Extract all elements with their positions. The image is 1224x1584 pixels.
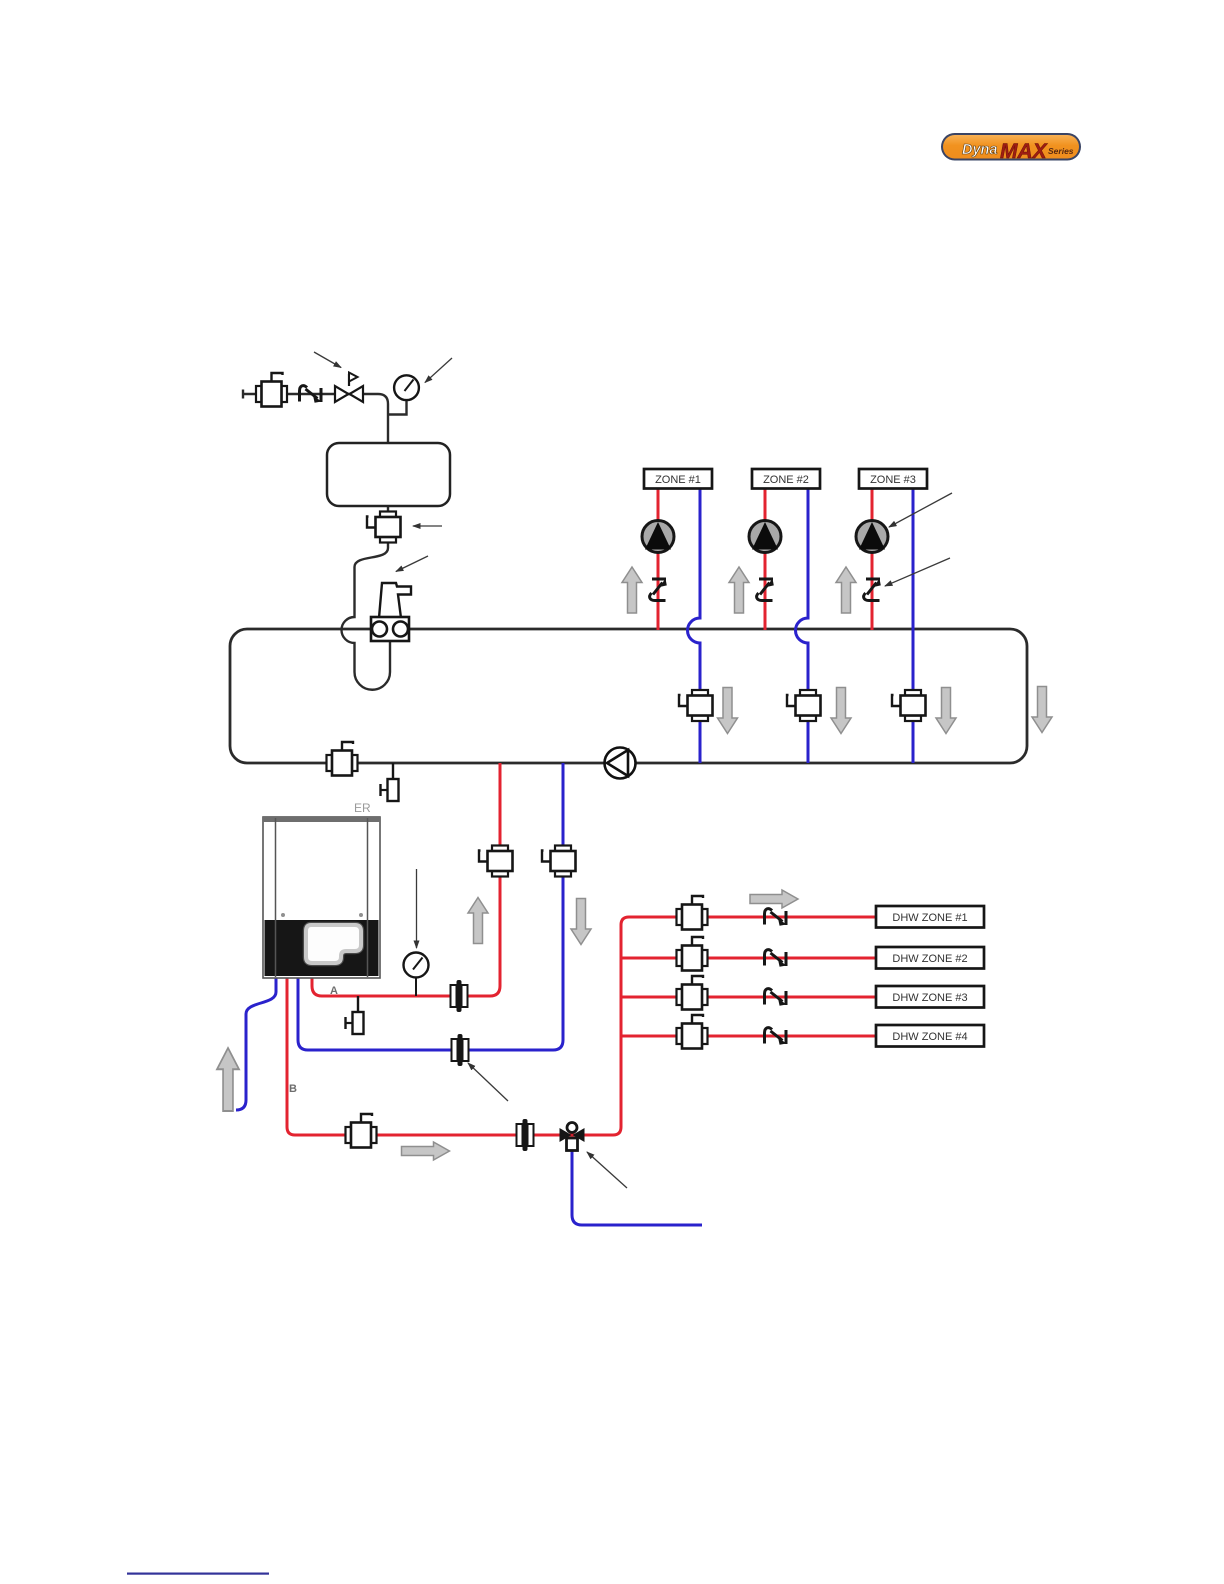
svg-text:B: B (289, 1083, 297, 1095)
svg-text:Dyna: Dyna (962, 142, 997, 158)
svg-text:DHW ZONE #4: DHW ZONE #4 (892, 1031, 967, 1043)
svg-text:ZONE #3: ZONE #3 (870, 474, 916, 486)
svg-text:MAX: MAX (1000, 140, 1049, 163)
svg-text:DHW ZONE #2: DHW ZONE #2 (892, 953, 967, 965)
svg-text:ER: ER (354, 801, 371, 815)
svg-text:Series: Series (1048, 146, 1074, 156)
svg-text:ZONE #2: ZONE #2 (763, 474, 809, 486)
svg-text:DHW ZONE #3: DHW ZONE #3 (892, 992, 967, 1004)
svg-text:ZONE #1: ZONE #1 (655, 474, 701, 486)
svg-text:A: A (330, 985, 338, 997)
svg-text:DHW ZONE #1: DHW ZONE #1 (892, 912, 967, 924)
